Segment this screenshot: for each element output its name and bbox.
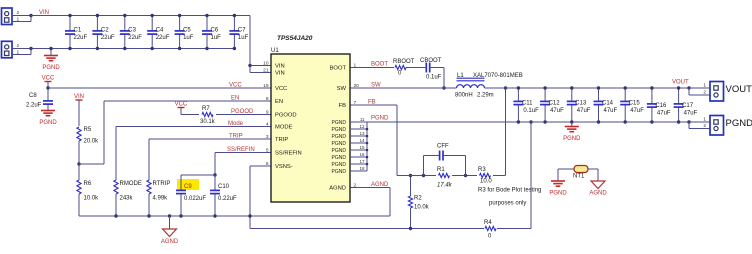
node VSNS-/AGND rail junction: [248, 214, 251, 217]
svg-text:22uF: 22uF: [74, 35, 88, 41]
resistor RTRIP 4.99k: [147, 180, 171, 216]
net label Mode: [228, 121, 244, 127]
svg-text:EN: EN: [275, 99, 283, 105]
svg-text:30.1k: 30.1k: [200, 119, 216, 125]
svg-text:47uF: 47uF: [684, 110, 698, 116]
connector J3 (PGND input): [2, 41, 20, 58]
svg-text:FB: FB: [339, 103, 347, 109]
node PGND connector junction: [687, 120, 690, 123]
svg-text:FB: FB: [368, 100, 376, 106]
svg-text:C10: C10: [218, 184, 230, 190]
svg-text:0.1uF: 0.1uF: [523, 108, 539, 114]
svg-text:14: 14: [359, 138, 365, 143]
wire CBOOT to SW: [443, 68, 445, 89]
svg-text:2: 2: [703, 123, 706, 129]
node AGND rail junction x181: [179, 214, 182, 217]
svg-text:PGND: PGND: [549, 191, 567, 197]
svg-text:AGND: AGND: [589, 191, 607, 197]
node R2 top junction: [409, 174, 412, 177]
net label SW: [371, 83, 381, 89]
wire VSNS- net: [250, 166, 271, 229]
resistor R5 20.0k: [77, 127, 99, 164]
resistor R7 30.1k: [181, 106, 271, 125]
wire SS/REFIN net: [215, 153, 271, 176]
svg-text:2.2uF: 2.2uF: [26, 103, 42, 109]
svg-text:PGOOD: PGOOD: [231, 109, 254, 115]
svg-text:R3 for Bode Plot testing: R3 for Bode Plot testing: [478, 188, 541, 194]
net label VIN: [39, 10, 49, 16]
power flag VCC (PGOOD pullup): [175, 102, 188, 115]
svg-text:PGND: PGND: [563, 136, 581, 142]
svg-text:C4: C4: [156, 28, 164, 34]
resistor RMODE 243k: [114, 180, 142, 216]
wire R3 to VOUT rail: [505, 88, 507, 176]
svg-text:21: 21: [263, 67, 269, 73]
node VIN pin branch: [248, 64, 251, 67]
svg-text:6: 6: [266, 161, 269, 167]
net tie NT1: [573, 166, 588, 180]
svg-text:XAL7070-801MEB: XAL7070-801MEB: [473, 73, 523, 79]
wire BOOT net: [350, 67, 394, 69]
wire VCC to U1 pin 19: [48, 87, 271, 89]
svg-text:4.99k: 4.99k: [153, 196, 169, 202]
svg-text:C3: C3: [128, 28, 136, 34]
svg-text:R1: R1: [437, 167, 445, 173]
net label BOOT: [371, 62, 388, 68]
U1 PGND pin stack: [332, 117, 365, 175]
svg-text:AGND: AGND: [161, 239, 179, 245]
svg-text:8: 8: [266, 96, 269, 102]
svg-text:9: 9: [266, 109, 269, 115]
capacitor C5 1uF: [175, 14, 194, 50]
svg-text:C12: C12: [549, 101, 561, 107]
wire VIN rail drop to U1: [250, 16, 271, 73]
net label PGND: [371, 116, 389, 122]
svg-text:SS/REFIN: SS/REFIN: [227, 147, 255, 153]
svg-text:C16: C16: [655, 103, 667, 109]
wire PGND pin bus: [350, 122, 368, 171]
svg-text:PGND: PGND: [332, 162, 347, 168]
svg-text:AGND: AGND: [371, 182, 389, 188]
svg-text:13: 13: [359, 131, 365, 136]
net label SS/REFIN: [227, 147, 255, 153]
svg-text:800nH: 800nH: [455, 93, 473, 99]
capacitor C12 47uF: [540, 86, 564, 123]
capacitor C10 0.22uF: [210, 175, 237, 216]
U1 right pin names and numbers: [329, 62, 359, 191]
svg-text:2.29m: 2.29m: [477, 93, 494, 99]
wire PGND bottom rail: [31, 48, 234, 50]
svg-text:C2: C2: [101, 28, 109, 34]
svg-text:EN: EN: [231, 96, 239, 102]
capacitor C3 22uF: [120, 14, 143, 50]
wire FB node: [397, 175, 436, 177]
svg-text:R3: R3: [478, 167, 486, 173]
svg-text:1uF: 1uF: [183, 35, 194, 41]
svg-text:RBOOT: RBOOT: [393, 59, 415, 65]
connector J4 (PGND): [703, 116, 752, 136]
svg-text:C17: C17: [682, 103, 694, 109]
capacitor C16 47uF: [647, 86, 671, 123]
svg-text:1: 1: [703, 117, 706, 123]
wire PGND output rail: [367, 121, 689, 123]
svg-text:C8: C8: [29, 93, 37, 99]
capacitor C2 22uF: [92, 14, 115, 50]
wire PGND connector stubs: [689, 122, 710, 129]
node C9/C10 tee: [213, 173, 216, 176]
net label FB: [368, 100, 376, 106]
node R3/VOUT junction: [504, 86, 507, 89]
svg-text:2: 2: [17, 10, 20, 16]
svg-text:PGOOD: PGOOD: [275, 113, 297, 119]
U1 left pin names and numbers: [263, 60, 302, 170]
svg-text:VIN: VIN: [275, 64, 285, 70]
svg-text:5: 5: [266, 147, 269, 153]
capacitor C17 47uF: [674, 86, 698, 123]
svg-text:R5: R5: [84, 127, 92, 133]
wire VOUT rail: [485, 87, 690, 89]
resistor R3 10.0: [478, 167, 506, 185]
resistor R6 10.0k: [77, 164, 99, 216]
wire AGND-PGND tie: [250, 228, 484, 230]
svg-text:PGND: PGND: [332, 127, 347, 133]
svg-text:22uF: 22uF: [156, 35, 170, 41]
wire EN net: [79, 101, 271, 164]
node AGND rail junction x116: [114, 214, 117, 217]
svg-text:PGND: PGND: [332, 120, 347, 126]
net label EN: [231, 96, 239, 102]
svg-text:VCC: VCC: [229, 83, 242, 89]
svg-text:47uF: 47uF: [550, 108, 564, 114]
svg-text:purposes only: purposes only: [489, 201, 526, 207]
wire AGND pin loop: [350, 188, 390, 217]
svg-text:1: 1: [354, 62, 357, 68]
wire FB net: [350, 105, 397, 176]
svg-text:PGND: PGND: [39, 120, 57, 126]
capacitor C4 22uF: [147, 14, 170, 50]
svg-text:C6: C6: [211, 28, 219, 34]
node VIN junction at connector: [29, 14, 32, 17]
svg-text:10.0k: 10.0k: [84, 196, 100, 202]
ground PGND (input rail): [42, 47, 60, 71]
svg-text:1uF: 1uF: [238, 35, 249, 41]
ground AGND (NT1): [589, 181, 607, 197]
capacitor C15 47uF: [620, 86, 644, 123]
capacitor C9 0.022uF (highlighted): [176, 175, 206, 216]
node R4/PGND rail junction: [529, 120, 532, 123]
resistor R2 10.0k: [408, 176, 429, 229]
svg-text:12: 12: [359, 124, 365, 129]
net label TRIP: [229, 134, 243, 140]
svg-text:11: 11: [360, 117, 365, 122]
net label VCC: [229, 83, 242, 89]
ground PGND (C8): [39, 111, 57, 127]
net label AGND: [371, 182, 389, 188]
power flag VCC (C8): [42, 76, 55, 89]
wire NT1 right lead: [588, 169, 598, 181]
svg-text:C14: C14: [602, 101, 614, 107]
svg-text:R7: R7: [202, 106, 210, 112]
svg-text:VIN: VIN: [275, 71, 285, 77]
svg-text:C5: C5: [183, 28, 191, 34]
svg-text:1: 1: [703, 83, 706, 89]
capacitor C11 0.1uF: [513, 86, 539, 123]
node VCC junction: [46, 86, 49, 89]
svg-text:L1: L1: [457, 73, 464, 79]
svg-text:0.1uF: 0.1uF: [426, 75, 442, 81]
node CBOOT/SW junction: [442, 86, 445, 89]
svg-text:VSNS-: VSNS-: [275, 164, 293, 170]
wire R4 to PGND rail: [530, 122, 532, 229]
svg-text:7: 7: [354, 100, 357, 106]
node EN divider junction: [77, 162, 80, 165]
svg-text:3: 3: [266, 134, 269, 140]
net label PGOOD: [231, 109, 254, 115]
svg-text:VOUT: VOUT: [726, 84, 752, 95]
svg-text:2: 2: [703, 90, 706, 96]
wire VIN pin 10 stub: [250, 65, 271, 67]
power flag VIN (EN divider): [74, 94, 84, 126]
wire J3 pin1 join: [12, 49, 31, 55]
svg-text:SS/REFIN: SS/REFIN: [275, 151, 302, 157]
svg-text:U1: U1: [271, 48, 279, 54]
net label VOUT: [672, 80, 689, 86]
svg-text:PGND: PGND: [332, 141, 347, 147]
resistor R4 0: [484, 220, 531, 240]
ground PGND (NT1): [549, 181, 567, 197]
svg-text:RMODE: RMODE: [120, 181, 142, 187]
capacitor CFF: [424, 144, 466, 176]
wire VOUT connector stubs: [689, 88, 710, 95]
svg-text:C13: C13: [575, 101, 587, 107]
svg-text:20: 20: [354, 83, 360, 89]
wire J1 pin1 join: [12, 16, 31, 22]
svg-text:SW: SW: [371, 83, 381, 89]
svg-text:17.4k: 17.4k: [437, 183, 453, 189]
svg-text:VCC: VCC: [175, 102, 188, 108]
svg-text:0.22uF: 0.22uF: [218, 196, 237, 202]
wire SW net: [350, 87, 457, 89]
svg-text:PGND: PGND: [332, 134, 347, 140]
capacitor C7 1uF: [229, 14, 248, 50]
node CFF left junction: [422, 174, 425, 177]
capacitor CBOOT 0.1uF: [420, 58, 444, 81]
svg-text:10.0: 10.0: [480, 179, 492, 185]
svg-text:TPS54JA20: TPS54JA20: [277, 35, 313, 42]
svg-text:SW: SW: [337, 86, 347, 92]
svg-text:BOOT: BOOT: [371, 62, 388, 68]
node VOUT connector junction: [687, 86, 690, 89]
svg-text:VCC: VCC: [42, 76, 55, 82]
node AGND rail junction x169.5: [168, 214, 171, 217]
svg-text:C15: C15: [629, 101, 641, 107]
svg-text:PGND: PGND: [332, 148, 347, 154]
inductor L1 XAL7070 800nH: [455, 73, 523, 99]
capacitor C13 47uF: [567, 86, 591, 123]
svg-text:0.022uF: 0.022uF: [184, 196, 206, 202]
resistor R1 17.4k: [437, 167, 477, 189]
svg-text:PGND: PGND: [332, 155, 347, 161]
svg-text:R4: R4: [484, 220, 492, 226]
capacitor C14 47uF: [594, 86, 618, 123]
node R2 bottom junction: [409, 227, 412, 230]
connector J2 (VOUT): [703, 82, 752, 102]
svg-text:Mode: Mode: [228, 121, 244, 127]
resistor RBOOT 0: [393, 59, 425, 77]
svg-text:C7: C7: [238, 28, 246, 34]
svg-text:22uF: 22uF: [101, 35, 115, 41]
svg-text:VOUT: VOUT: [672, 80, 689, 86]
svg-text:VCC: VCC: [275, 86, 287, 92]
ground PGND (output): [563, 122, 581, 142]
node CFF right junction: [464, 174, 467, 177]
svg-text:C11: C11: [522, 101, 533, 107]
svg-text:TRIP: TRIP: [229, 134, 243, 140]
capacitor C8 2.2uF: [26, 88, 53, 110]
svg-text:47uF: 47uF: [630, 108, 644, 114]
svg-text:10: 10: [263, 60, 269, 66]
wire NT1 left lead: [558, 169, 574, 181]
svg-text:20.0k: 20.0k: [84, 139, 100, 145]
note text Bode: [478, 188, 541, 207]
svg-text:NT1: NT1: [573, 174, 585, 180]
connector J1 (VIN input): [2, 8, 20, 25]
svg-text:19: 19: [263, 83, 269, 89]
svg-text:C9: C9: [184, 184, 192, 190]
svg-text:C1: C1: [74, 28, 82, 34]
svg-text:PGND: PGND: [42, 65, 60, 71]
ground AGND (rail): [161, 216, 179, 245]
svg-text:1uF: 1uF: [211, 35, 222, 41]
svg-text:47uF: 47uF: [657, 110, 671, 116]
svg-text:BOOT: BOOT: [330, 66, 347, 72]
svg-text:47uF: 47uF: [604, 108, 618, 114]
svg-text:PGND: PGND: [371, 116, 389, 122]
svg-text:17: 17: [359, 159, 365, 164]
svg-text:MODE: MODE: [275, 125, 293, 131]
node J3 junction: [29, 47, 32, 50]
svg-text:R6: R6: [84, 181, 92, 187]
svg-text:PGND: PGND: [332, 169, 347, 175]
wire C9 branch: [181, 174, 215, 176]
node AGND rail junction x215: [213, 214, 216, 217]
svg-text:2: 2: [354, 182, 357, 188]
svg-text:CBOOT: CBOOT: [420, 58, 442, 64]
svg-text:AGND: AGND: [329, 186, 346, 192]
op-amp U1 TPS54JA20 body: [271, 35, 350, 202]
svg-text:TRIP: TRIP: [275, 137, 288, 143]
node AGND rail junction x149: [147, 214, 150, 217]
svg-text:15: 15: [359, 145, 365, 150]
svg-text:47uF: 47uF: [577, 108, 591, 114]
svg-text:16: 16: [359, 152, 365, 157]
svg-text:4: 4: [266, 121, 269, 127]
wire MODE net: [116, 127, 271, 181]
svg-text:PGND: PGND: [726, 118, 752, 129]
wire AGND rail: [79, 215, 390, 217]
svg-text:243k: 243k: [120, 196, 134, 202]
svg-text:22uF: 22uF: [128, 35, 142, 41]
svg-text:R2: R2: [414, 196, 422, 202]
wire J1 pin2 to VIN rail: [12, 15, 31, 17]
wire VIN top rail: [31, 15, 250, 17]
svg-text:VIN: VIN: [74, 94, 84, 100]
capacitor C1 22uF: [65, 14, 88, 50]
svg-text:10.0k: 10.0k: [414, 205, 430, 211]
wire J3 pin2 stub: [12, 48, 31, 50]
capacitor C6 1uF: [202, 14, 221, 50]
svg-text:18: 18: [359, 166, 365, 171]
svg-text:RTRIP: RTRIP: [153, 181, 171, 187]
wire TRIP net: [149, 139, 271, 180]
svg-text:CFF: CFF: [437, 144, 449, 150]
